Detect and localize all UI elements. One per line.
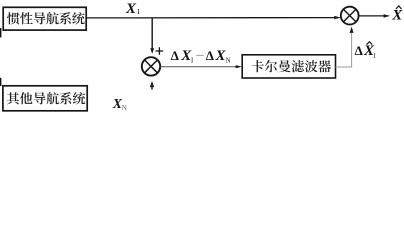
label: plus sign at summing junction 1 xyxy=(156,50,164,52)
wire: Kalman filter output feedback up to summing junction 2 xyxy=(336,33,352,67)
box: 其他导航系统 (other navigation systems) xyxy=(3,86,87,111)
wire: X_I from inertial box to summing junction 2 xyxy=(86,17,334,19)
box: 惯性导航系统 (inertial navigation system) xyxy=(3,7,86,30)
wire: summing junction 2 output X̂ xyxy=(359,15,384,17)
svg-text:Δ: Δ xyxy=(171,48,179,63)
svg-text:N: N xyxy=(225,56,231,65)
arrowhead: output arrow xyxy=(384,14,391,17)
summing junction 1 (compare X_I and X_N) xyxy=(142,57,160,75)
summing junction 2 (corrected output) xyxy=(341,7,359,25)
svg-text:Δ: Δ xyxy=(355,43,363,58)
box: 卡尔曼滤波器 (Kalman filter) xyxy=(242,55,335,78)
wire: summing junction 1 output to Kalman filter xyxy=(160,66,236,68)
arrowhead: up into summing junction 2 (bottom) xyxy=(350,27,354,33)
text: 其他导航系统 xyxy=(7,92,85,104)
arrowhead: into summing junction 2 (left) xyxy=(334,16,341,19)
text: 卡尔曼滤波器 xyxy=(251,60,330,72)
scan artifact: left edge mark upper xyxy=(0,28,1,38)
svg-text:Δ: Δ xyxy=(206,48,214,63)
svg-text:X: X xyxy=(125,1,137,17)
arrowhead: into Kalman filter box xyxy=(236,65,242,68)
text: 惯性导航系统 xyxy=(7,12,85,24)
arrowhead: down into summing junction 1 (top, +) xyxy=(150,48,154,54)
arrowhead: up into summing junction 1 (bottom, from X_N) xyxy=(150,81,154,87)
svg-text:N: N xyxy=(122,103,128,112)
wire: stub below bottom arrowhead xyxy=(151,87,153,89)
svg-text:X: X xyxy=(391,8,403,24)
wire: branch from X_I line down to summing junction 1 xyxy=(151,18,153,49)
scan artifact: left edge mark lower xyxy=(0,78,1,86)
